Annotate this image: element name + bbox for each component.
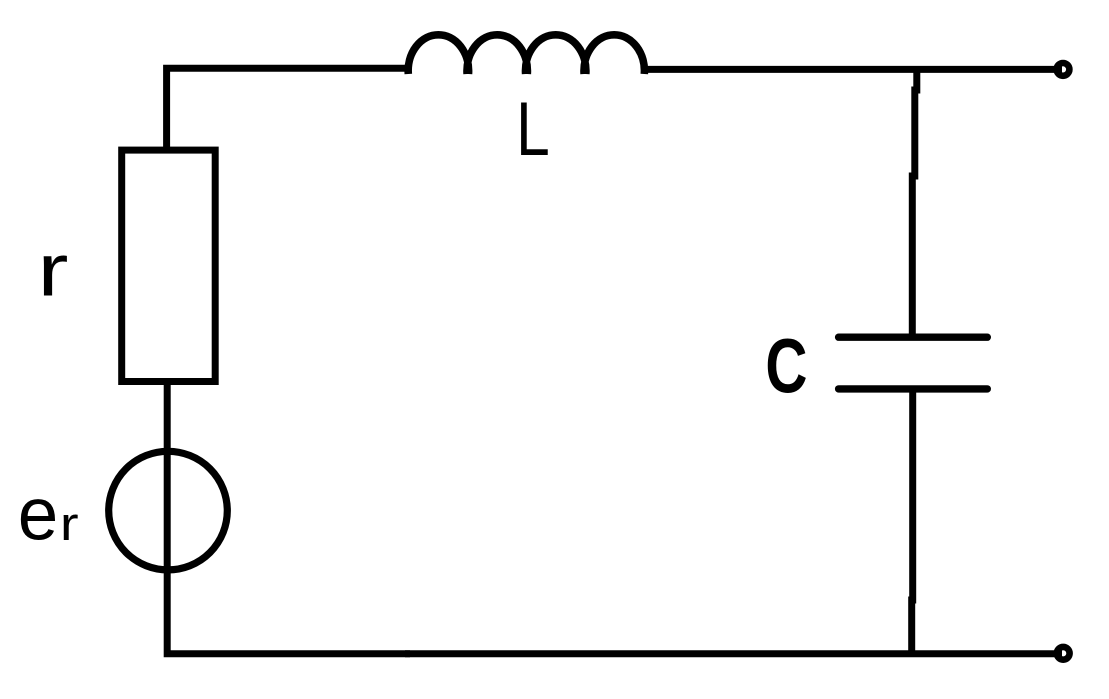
wire left vertical (resistor through source to bottom corner) [167,382,410,654]
terminal bottom-right [1057,647,1070,660]
wire right vertical upper (top wire down to capacitor) [912,69,917,337]
svg-text:e: e [18,473,58,556]
terminal top-right [1057,63,1070,76]
voltage source e_r [109,451,228,570]
resistor r [122,150,216,381]
svg-text:C: C [765,324,807,410]
svg-text:r: r [60,498,79,551]
label L [516,86,550,171]
svg-text:r: r [38,229,69,312]
wire bottom (to output terminal) [405,650,1062,657]
label C [765,324,807,410]
wire right vertical lower (capacitor to bottom wire) [912,389,913,654]
wire top-left (corner from resistor up to inductor) [167,68,409,151]
inductor L [408,35,644,74]
svg-text:L: L [516,86,550,171]
label e_r [18,473,58,556]
wire top-right (inductor to output terminal) [643,66,1062,73]
label r [38,229,69,312]
capacitor C [839,337,988,389]
